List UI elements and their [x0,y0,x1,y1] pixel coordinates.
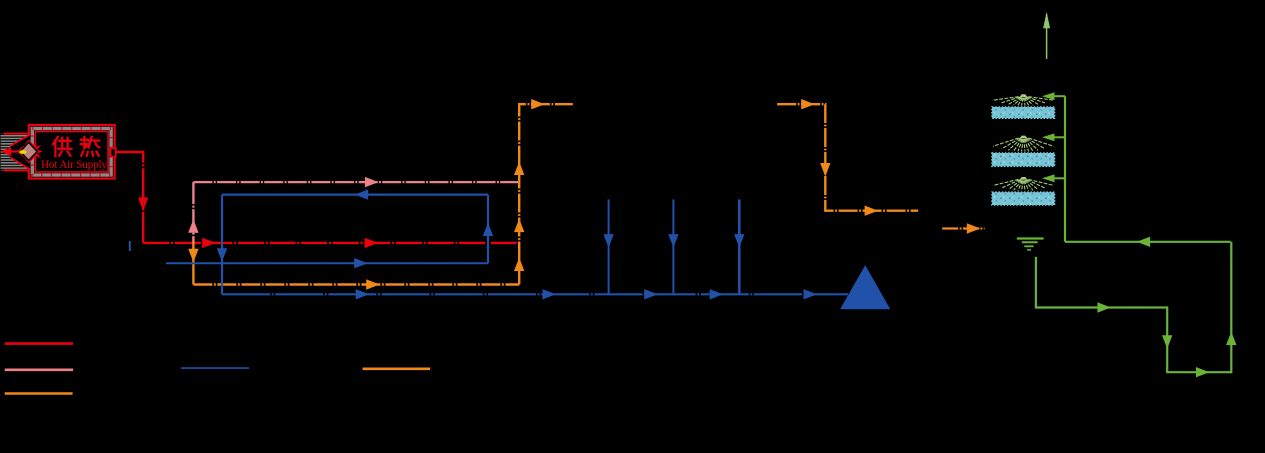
blue drop line 1 [608,199,610,294]
spray feed arrow level 2 [1042,133,1055,141]
blue damper tick [129,241,131,251]
spray feed arrow level 1 [1042,92,1055,100]
packing layer 1 [992,107,1055,118]
blue bottom line arrow [543,289,557,299]
drain line from water seal [1036,242,1231,372]
hot air supply box outer border [29,125,115,179]
legend pink line [5,368,73,371]
orange top arrow [531,99,545,109]
spray feed stub level 3 [1054,177,1065,179]
burner flame diamond [20,142,37,160]
orange bottom line [193,283,519,285]
spray fan level 2 [993,138,1054,152]
blue middle arrow down at crossing [217,248,227,261]
spray hub level 1 [1020,94,1028,97]
blue left vertical [221,195,223,295]
blue bottom line arrow [644,289,658,299]
orange riser arrow 1 [514,162,524,176]
legend red line [5,342,73,345]
pink right arrow [365,177,379,187]
orange down arrow [188,249,198,263]
legend orange line (right) [363,367,431,370]
flange top edge [4,133,30,135]
packing layer 3 [992,192,1055,205]
burner throat cone [10,135,30,170]
orange riser arrow 3 [514,258,524,272]
blue right vertical [487,195,489,264]
orange scrubber inlet arrow [967,223,981,233]
water seal symbol line 3 [1024,245,1033,247]
scrubber feed pipe [1064,96,1066,242]
drain arrow down [1162,335,1172,349]
orange riser [519,104,573,284]
burner flame star [17,140,43,164]
water seal symbol line 4 [1027,249,1031,251]
red line arrow 2 [365,238,379,248]
orange line vertical left [192,242,194,285]
hot air supply box inner border [35,132,108,173]
blue drop line 2 [672,199,674,294]
pink up arrow [188,219,198,233]
hot air supply box gray band red ticks [32,129,111,176]
spray hub level 3 [1020,177,1028,180]
red pipe down arrow [138,198,148,212]
red line arrow 1 [202,238,216,248]
orange bypass arrow right mid [865,206,879,216]
blue top line [222,194,488,196]
blue bottom main line [222,293,848,295]
orange riser arrow 2 [514,219,524,233]
orange scrubber inlet line [942,227,984,229]
orange bypass arrow right top [801,99,815,109]
blue drop arrow 3 [734,234,744,248]
spray fan level 1 [993,97,1054,106]
burner inlet arrow [1,147,12,156]
orange bottom line arrow [366,279,380,289]
blue bottom line arrow [804,289,818,299]
blue drop line 3 [738,199,741,294]
circulation return left arrow [1137,237,1151,247]
blue bottom line arrow [710,289,724,299]
burner oil gun yellow tip [19,150,26,154]
label 热 (re) [81,137,100,156]
spray feed stub level 1 [1054,95,1065,97]
legend orange line (left) [5,392,73,395]
pink return line horizontal [193,181,518,183]
red hot air supply pipe (box to corner) [116,152,143,243]
drain arrow right 2 [1196,367,1210,377]
blue middle line [166,262,488,264]
stack exhaust line [1046,14,1048,59]
red hot air main line [143,242,519,244]
blue triangle (boiler) [840,265,890,309]
packing layer 2 [992,153,1055,166]
svg-text:Hot Air Supply: Hot Air Supply [41,159,107,171]
box outlet flange [111,148,116,156]
pink return line vertical [192,182,194,243]
spray fan level 3 [993,179,1054,190]
hot air supply unit: inlet flange hatch [1,134,31,171]
blue top line left arrow [355,189,369,199]
orange bypass arrow down [820,163,830,177]
water seal symbol line 1 [1017,237,1044,239]
blue middle line arrow [354,258,368,268]
blue right vertical up arrow [483,223,493,237]
water seal symbol line 2 [1022,241,1038,243]
drain arrow right 1 [1097,302,1111,312]
riser arrow up [1226,332,1236,346]
label 供 (gong) [53,137,71,156]
blue drop arrow 1 [603,234,613,248]
blue drop arrow 2 [668,234,678,248]
spray feed stub level 2 [1054,136,1065,138]
orange bypass top line [777,104,918,211]
flange bottom edge [4,169,30,171]
spray feed arrow level 3 [1042,174,1055,182]
spray hub level 2 [1020,136,1028,139]
blue bottom line arrow [356,289,370,299]
hot air supply box gray band [32,129,111,176]
stack exhaust arrow [1043,12,1050,28]
legend blue line [181,367,249,369]
circulation return line (to tower) [1065,241,1231,243]
